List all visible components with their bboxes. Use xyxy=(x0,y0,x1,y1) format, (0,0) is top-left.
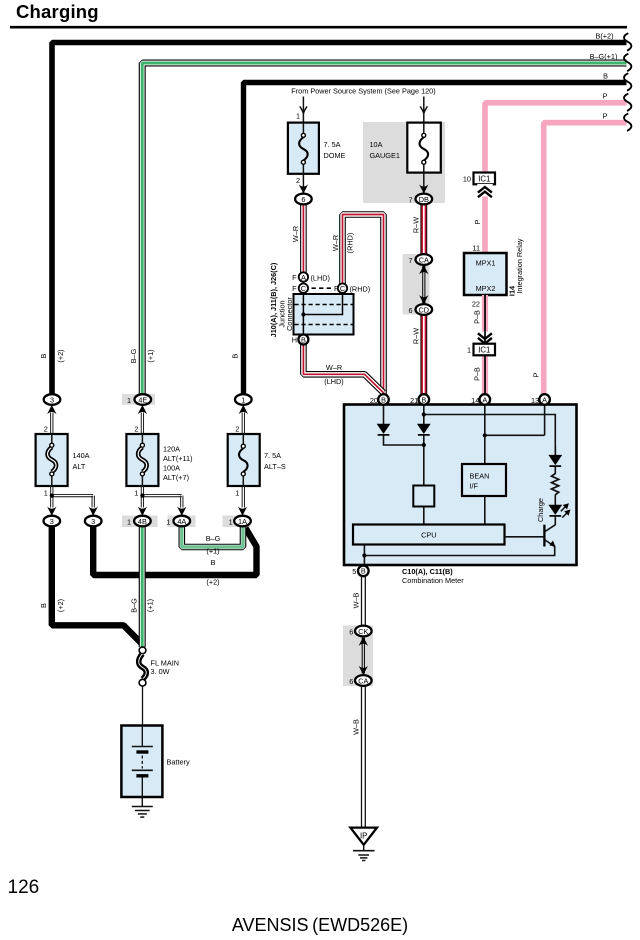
svg-text:126: 126 xyxy=(8,877,40,898)
meter connector circle 21 B xyxy=(419,394,430,405)
wire IP to ground xyxy=(363,845,365,851)
node dot diode join xyxy=(422,443,426,447)
svg-text:I/F: I/F xyxy=(470,481,479,490)
svg-text:1: 1 xyxy=(296,112,300,121)
svg-text:IC1: IC1 xyxy=(478,346,490,355)
gray band GAUGE1 fuse region xyxy=(363,122,445,203)
svg-text:W–B: W–B xyxy=(352,719,361,735)
wire W-R connector 6 to junction A xyxy=(300,204,307,273)
wire B bus xyxy=(244,83,627,395)
svg-text:7: 7 xyxy=(408,196,412,205)
connector circle B bottom xyxy=(298,335,308,345)
wire W-R RHD hairpin xyxy=(343,215,384,395)
svg-text:6: 6 xyxy=(301,195,305,204)
connector oval 4E xyxy=(135,394,152,405)
svg-text:P: P xyxy=(603,111,608,120)
battery plate long 2 xyxy=(132,769,153,771)
connector circle C right (RHD) xyxy=(338,284,347,293)
svg-text:21: 21 xyxy=(410,396,418,405)
junction connector box J10/J11/J26 xyxy=(294,294,354,335)
wire CPU to 5 xyxy=(363,545,365,566)
svg-text:A: A xyxy=(301,273,306,282)
svg-text:B: B xyxy=(211,558,216,567)
wire to GAUGE1 fuse xyxy=(423,97,425,124)
svg-text:P: P xyxy=(603,92,608,101)
fuse ALT-S element xyxy=(242,434,244,444)
svg-text:3: 3 xyxy=(91,517,95,526)
svg-text:1: 1 xyxy=(166,517,170,526)
battery internal wire bottom xyxy=(141,778,143,807)
solid arrow down into oval 4A xyxy=(177,507,186,516)
fuse 120A/100A ALT box xyxy=(126,434,158,486)
wire 21 to diode D2 xyxy=(423,404,425,424)
CPU box xyxy=(353,525,505,545)
connector oval 4B xyxy=(134,516,151,527)
svg-text:B: B xyxy=(421,395,426,404)
svg-text:7. 5A: 7. 5A xyxy=(264,451,281,460)
svg-text:2: 2 xyxy=(235,425,239,434)
diode D1 xyxy=(377,424,391,434)
gray band connector 1A xyxy=(223,516,251,528)
svg-text:3. 0W: 3. 0W xyxy=(151,667,170,676)
fusible link FL MAIN element xyxy=(139,654,147,679)
IC1 box (pin 1) xyxy=(474,344,496,356)
svg-text:1: 1 xyxy=(127,396,131,405)
wire fuse 7.5A to oval 1A xyxy=(241,486,243,508)
solid arrow into connector 6 xyxy=(299,184,308,193)
connector oval 3 bottom right xyxy=(85,516,102,527)
diode D2 xyxy=(417,424,431,434)
wire emitter return xyxy=(364,546,554,556)
connector oval CD xyxy=(416,304,433,315)
svg-text:2: 2 xyxy=(44,425,48,434)
svg-text:1A: 1A xyxy=(238,517,247,526)
svg-text:Combination Meter: Combination Meter xyxy=(402,576,464,585)
svg-text:Integration Relay: Integration Relay xyxy=(515,238,524,294)
wire D2 to square xyxy=(423,435,425,486)
wire D3 to resistor xyxy=(554,466,556,474)
internal square block xyxy=(413,486,434,507)
svg-text:14: 14 xyxy=(471,396,479,405)
svg-text:(RHD): (RHD) xyxy=(350,285,371,294)
gray band connector 4E xyxy=(122,394,155,405)
wire P bus upper xyxy=(485,103,627,173)
meter connector circle 14 A xyxy=(480,394,491,405)
connector circle A (LHD) xyxy=(299,272,308,281)
wire 20 to diode D1 xyxy=(383,404,385,424)
junction connector internal wire left xyxy=(302,294,304,335)
svg-text:H: H xyxy=(292,336,297,345)
svg-text:1: 1 xyxy=(241,395,245,404)
node dot 140A branch xyxy=(50,494,54,498)
wire LED to transistor collector xyxy=(554,516,556,525)
shielded link CK to CA xyxy=(361,638,363,674)
svg-text:B: B xyxy=(231,353,240,358)
svg-text:MPX1: MPX1 xyxy=(476,258,496,267)
wire 14 branch to 13 xyxy=(485,434,545,436)
svg-text:Connector: Connector xyxy=(285,297,294,331)
svg-text:13: 13 xyxy=(531,396,539,405)
LED arrow 2 xyxy=(562,513,567,518)
svg-text:22: 22 xyxy=(472,300,480,309)
svg-text:B–G: B–G xyxy=(130,598,139,613)
gray band shielded section CK-CA xyxy=(343,626,373,687)
svg-text:B: B xyxy=(39,353,48,358)
wire oval 4E to fuse 120A xyxy=(140,413,142,435)
solid arrow up toward CA xyxy=(419,265,428,274)
bus continuation hook P upper xyxy=(624,94,631,111)
diode D3 xyxy=(554,446,556,456)
svg-text:7: 7 xyxy=(408,256,412,265)
meter connector circle 20 B xyxy=(378,394,389,405)
wire B-G 4B to FL MAIN (green core) xyxy=(141,526,144,647)
solid arrow down toward CA xyxy=(359,666,368,675)
solid arrow down into oval 1A xyxy=(238,507,247,516)
svg-text:From Power Source System (See: From Power Source System (See Page 120) xyxy=(291,87,435,96)
svg-text:ALT(+11): ALT(+11) xyxy=(163,454,193,463)
svg-text:P: P xyxy=(532,372,541,377)
svg-text:P–B: P–B xyxy=(472,367,481,381)
node dot 21 branch xyxy=(422,412,426,416)
svg-text:120A: 120A xyxy=(163,444,180,453)
solid arrow down toward CD xyxy=(419,295,428,304)
connector oval 4A xyxy=(174,516,191,527)
wire 13 down xyxy=(544,404,546,435)
wire oval 1 to fuse 7.5A xyxy=(241,413,243,435)
junction connector internal wire right C leg xyxy=(303,293,342,315)
wire P bus lower xyxy=(544,123,627,395)
svg-text:10: 10 xyxy=(463,175,471,184)
connector oval 1 xyxy=(235,394,252,405)
wire B-G 4A to 1A (green core) xyxy=(182,526,243,547)
bus continuation hook B-G(+1) xyxy=(624,54,631,71)
battery plate short 1 xyxy=(136,750,148,753)
LED arrow 1 xyxy=(561,506,566,511)
svg-text:CA: CA xyxy=(419,255,429,264)
wire P IC1 to MPX1 xyxy=(482,184,488,254)
svg-text:F: F xyxy=(292,284,297,293)
wire B-G 4B to FL MAIN (white gap) xyxy=(140,526,145,647)
wire oval3 to fuse 140A xyxy=(50,413,52,435)
battery internal wire top xyxy=(141,726,143,747)
wire fuse 120A to ovals 4B/4A xyxy=(140,486,142,508)
svg-text:W–B: W–B xyxy=(352,592,361,608)
open arrow into DOME fuse xyxy=(300,106,307,113)
junction connector dashed row 2 xyxy=(295,324,353,326)
wire GAUGE1 fuse to connector DB xyxy=(423,173,425,194)
dashed link between C and C xyxy=(312,287,332,289)
LED charge xyxy=(548,505,562,515)
wire B(+2) bus xyxy=(52,43,627,395)
IP ground symbol xyxy=(353,850,375,852)
svg-text:1: 1 xyxy=(235,488,239,497)
gray band connector 4A xyxy=(168,516,196,528)
wire R-W connector CD to meter 21 xyxy=(420,315,427,395)
svg-text:C: C xyxy=(301,284,306,293)
integration relay box MPX1/MPX2 xyxy=(464,253,507,295)
wire DOME fuse to connector 6 xyxy=(302,174,304,194)
wire to DOME fuse xyxy=(302,97,304,124)
wire FL MAIN to battery xyxy=(142,686,144,726)
wire 14 to BEAN I/F xyxy=(484,404,486,464)
svg-text:(RHD): (RHD) xyxy=(345,233,354,254)
svg-text:2: 2 xyxy=(296,176,300,185)
svg-text:5: 5 xyxy=(352,567,356,576)
svg-text:6: 6 xyxy=(408,306,412,315)
svg-text:ALT(+7): ALT(+7) xyxy=(163,473,189,482)
fusible link 120A element xyxy=(141,434,143,443)
solid arrow down into oval 3 left xyxy=(47,507,56,516)
fuse 140A ALT box xyxy=(36,434,68,486)
svg-text:B–G(+1): B–G(+1) xyxy=(590,52,618,61)
svg-text:3: 3 xyxy=(50,517,54,526)
svg-text:CPU: CPU xyxy=(421,531,436,540)
svg-text:B: B xyxy=(39,603,48,608)
svg-text:ALT–S: ALT–S xyxy=(264,462,286,471)
svg-text:10A: 10A xyxy=(370,140,383,149)
wire B(+2) oval3#2 to 1A xyxy=(93,526,256,575)
bus continuation hook B(+2) xyxy=(624,33,631,50)
svg-text:IC1: IC1 xyxy=(478,175,490,184)
open arrow into GAUGE1 fuse xyxy=(420,106,427,113)
connector oval 3 bottom left xyxy=(44,516,61,527)
svg-text:DB: DB xyxy=(419,195,429,204)
bus continuation hook P lower xyxy=(624,114,631,131)
svg-text:1: 1 xyxy=(229,517,233,526)
fusible link 140A element xyxy=(51,434,53,443)
svg-text:(+2): (+2) xyxy=(206,578,219,587)
transistor charge lamp driver xyxy=(543,525,545,547)
svg-text:1: 1 xyxy=(467,346,471,355)
connector oval DB xyxy=(416,194,433,205)
svg-text:6: 6 xyxy=(349,677,353,686)
wire fuse 140A to ovals 3/3 xyxy=(50,486,52,508)
node dot 120A branch xyxy=(140,494,144,498)
wire B(+2) oval3 to FL MAIN xyxy=(52,526,142,644)
wire B-G(+1) bus (black base) xyxy=(142,63,626,394)
battery box xyxy=(121,726,162,798)
svg-text:P–B: P–B xyxy=(472,310,481,324)
svg-text:(+1): (+1) xyxy=(206,547,219,556)
ground point IP triangle xyxy=(350,828,377,845)
svg-text:R–W: R–W xyxy=(411,217,420,233)
FL MAIN bottom terminal circle xyxy=(139,679,146,686)
svg-text:IP: IP xyxy=(360,831,367,840)
connector oval 1A xyxy=(234,516,251,527)
node dot 14 branch xyxy=(483,433,487,437)
wire B-G(+1) bus (green core) xyxy=(142,63,626,394)
svg-text:R–W: R–W xyxy=(411,328,420,344)
svg-text:AVENSIS (EWD526E): AVENSIS (EWD526E) xyxy=(232,915,408,935)
svg-text:Battery: Battery xyxy=(167,758,190,767)
fuse 7.5A ALT-S box xyxy=(228,434,260,486)
shielded link CA to CD xyxy=(422,266,424,303)
solid arrow down into oval 3 right xyxy=(89,507,98,516)
fuse 7.5A DOME box xyxy=(288,123,319,174)
wire square to CPU xyxy=(423,507,425,525)
svg-text:3: 3 xyxy=(50,395,54,404)
svg-text:7. 5A: 7. 5A xyxy=(324,140,341,149)
gray band shielded section CA-CD xyxy=(403,254,430,315)
svg-text:B: B xyxy=(603,72,608,81)
battery dashed link xyxy=(141,756,143,769)
svg-text:(+1): (+1) xyxy=(146,349,155,362)
svg-text:(LHD): (LHD) xyxy=(311,273,330,282)
node dot emitter return xyxy=(362,553,366,557)
svg-text:(+2): (+2) xyxy=(56,599,65,612)
svg-text:W–R: W–R xyxy=(291,226,300,242)
wire W-R junction B to meter 20 (LHD) xyxy=(303,345,383,393)
solid arrow down into oval 4B xyxy=(138,507,147,516)
svg-text:Charge: Charge xyxy=(536,498,545,522)
IC1 box (pin 10) xyxy=(474,173,496,185)
svg-text:CK: CK xyxy=(358,627,368,636)
connector oval 3 top xyxy=(44,394,61,405)
svg-text:B: B xyxy=(301,335,306,344)
svg-text:CA: CA xyxy=(358,676,368,685)
svg-text:GAUGE1: GAUGE1 xyxy=(370,151,400,160)
svg-text:140A: 140A xyxy=(73,451,90,460)
connector circle C left xyxy=(299,284,308,293)
title underline xyxy=(10,26,627,29)
svg-text:W–R: W–R xyxy=(331,235,340,251)
svg-text:B(+2): B(+2) xyxy=(595,32,613,41)
svg-text:W–R: W–R xyxy=(326,363,342,372)
svg-text:2: 2 xyxy=(134,425,138,434)
solid arrow up into oval 3 top xyxy=(47,405,56,414)
svg-text:11: 11 xyxy=(472,244,480,253)
svg-text:BEAN: BEAN xyxy=(470,471,490,480)
wire B-G 4A to 1A (black base) xyxy=(182,526,243,547)
svg-text:F: F xyxy=(292,273,297,282)
fuse 10A GAUGE1 box xyxy=(407,123,441,173)
svg-text:ALT: ALT xyxy=(73,462,86,471)
svg-text:B–G: B–G xyxy=(129,348,138,363)
wire P-B MPX2 to meter 14 xyxy=(482,295,488,395)
svg-text:(+1): (+1) xyxy=(146,599,155,612)
chevron up under IC1 xyxy=(477,184,492,196)
gray band connector 4B xyxy=(122,516,158,528)
svg-text:P: P xyxy=(473,219,482,224)
svg-text:1: 1 xyxy=(44,488,48,497)
fuse GAUGE1 element xyxy=(423,123,425,134)
FL MAIN top terminal circle xyxy=(139,647,146,654)
wire resistor to LED xyxy=(554,495,556,506)
wire node line to lamp chain xyxy=(424,415,556,456)
wire B-G(+1) bus (white gap) xyxy=(142,63,626,394)
svg-text:4A: 4A xyxy=(177,517,186,526)
junction node dot xyxy=(301,312,305,316)
connector oval CK xyxy=(355,626,372,637)
meter connector circle 13 A xyxy=(539,394,550,405)
svg-text:20: 20 xyxy=(370,396,378,405)
svg-text:B–G: B–G xyxy=(206,534,221,543)
svg-text:4B: 4B xyxy=(138,517,147,526)
svg-text:6: 6 xyxy=(349,627,353,636)
wire BEAN to CPU xyxy=(484,496,486,525)
svg-text:(LHD): (LHD) xyxy=(324,377,343,386)
solid arrow up toward CK xyxy=(359,637,368,646)
wire W-B meter 5 to CK xyxy=(362,576,366,626)
svg-text:A: A xyxy=(482,395,487,404)
svg-text:100A: 100A xyxy=(163,463,180,472)
battery plate short 2 xyxy=(136,774,148,777)
wire B-G 4A to 1A (white gap) xyxy=(182,526,243,547)
svg-text:A: A xyxy=(542,395,547,404)
svg-text:(+2): (+2) xyxy=(56,349,65,362)
wire R-W connector DB to CA xyxy=(420,204,427,255)
svg-text:1: 1 xyxy=(134,488,138,497)
solid arrow into connector DB xyxy=(419,184,428,193)
meter connector circle 5 B xyxy=(358,566,369,577)
solid arrow up into oval 4E xyxy=(138,405,147,414)
wire B-G 4B to FL MAIN (black base) xyxy=(139,526,146,647)
combination meter box C10/C11 xyxy=(344,405,577,566)
battery ground symbol xyxy=(132,806,153,808)
connector oval CA xyxy=(416,254,433,265)
connector oval CA (ground side) xyxy=(355,675,372,686)
fuse DOME element xyxy=(302,123,304,134)
svg-text:C10(A), C11(B): C10(A), C11(B) xyxy=(402,567,453,576)
connector oval 6 (DOME) xyxy=(295,194,312,205)
BEAN I/F box xyxy=(462,464,506,496)
svg-text:DOME: DOME xyxy=(324,151,346,160)
chevron down above IC1 lower xyxy=(477,332,492,344)
wire W-B CA to IP ground xyxy=(362,686,366,827)
resistor charge lamp xyxy=(552,474,559,495)
svg-text:B: B xyxy=(381,395,386,404)
svg-text:CD: CD xyxy=(419,305,430,314)
svg-text:1: 1 xyxy=(127,517,131,526)
svg-text:MPX2: MPX2 xyxy=(476,284,496,293)
bus continuation hook B xyxy=(624,73,631,90)
solid arrow up into oval 1 xyxy=(239,405,248,414)
svg-text:B: B xyxy=(361,567,366,576)
battery plate long 1 xyxy=(132,746,153,748)
wire D1 to node xyxy=(384,435,424,445)
svg-text:Charging: Charging xyxy=(16,1,99,22)
svg-text:C: C xyxy=(340,284,345,293)
svg-text:4E: 4E xyxy=(138,395,147,404)
junction connector dashed row 1 xyxy=(295,304,353,306)
